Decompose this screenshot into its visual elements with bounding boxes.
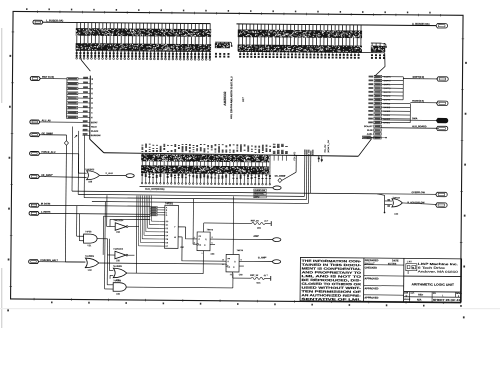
connector tag DMA xyxy=(436,118,448,123)
svg-text:ARITHMETIC LOGIC UNIT: ARITHMETIC LOGIC UNIT xyxy=(411,282,454,286)
wire FF1 Qbar stub xyxy=(210,243,215,245)
svg-text:74AS805: 74AS805 xyxy=(85,168,95,171)
svg-text:NO.: NO. xyxy=(433,293,437,295)
svg-text:ZERO: ZERO xyxy=(254,196,260,198)
wire riser V2 xyxy=(77,131,80,194)
wire CARRY long net xyxy=(92,202,308,204)
connector tag OE_AMNT' xyxy=(29,175,39,179)
svg-text:D5: D5 xyxy=(166,239,168,241)
wire OE dropper xyxy=(295,155,297,172)
connector tag ALU_A8 xyxy=(30,120,40,124)
or-gate U42 74AS32 xyxy=(392,199,403,207)
net label BL.M5 xyxy=(362,136,371,139)
connector tag J_INDEX xyxy=(29,211,39,215)
svg-text:RAND2: RAND2 xyxy=(383,110,391,113)
inverter C32 74AS1004 xyxy=(115,223,126,231)
resistor ESP pullup xyxy=(251,277,264,279)
wire feeder G2 xyxy=(108,239,110,271)
wire riser V3 xyxy=(83,135,86,197)
wire to gate U42 xyxy=(384,195,386,212)
svg-text:REF: REF xyxy=(418,294,423,297)
svg-text:74F08: 74F08 xyxy=(85,231,92,233)
svg-text:A_BUS(31:0A): A_BUS(31:0A) xyxy=(412,22,430,26)
wire FF2 clear to pullup xyxy=(232,272,234,278)
flip-flop C33 74F74 xyxy=(197,232,210,251)
connector tag OVERFLOW xyxy=(436,192,448,197)
wire NEGATIVE long net xyxy=(78,194,304,196)
svg-text:BORROW: BORROW xyxy=(91,135,101,137)
svg-text:D2: D2 xyxy=(166,228,168,230)
wire INV1 out xyxy=(128,226,139,228)
svg-text:ALU_OUT(31:0A): ALU_OUT(31:0A) xyxy=(145,188,165,191)
wire A_BUS horizontal bus xyxy=(236,24,435,26)
wire SHIFT(0:3) to tag xyxy=(403,78,438,80)
status net name boxes OVERFLOW NEGATIVE ZERO xyxy=(254,189,267,192)
wire FF2 Qbar stub xyxy=(239,265,244,267)
net oval AMP' xyxy=(273,238,281,242)
svg-text:AM29332: AM29332 xyxy=(223,91,227,105)
wires status droppers OVERFLOW NEGATIVE ZERO xyxy=(303,156,305,197)
wire FF2 Q to G_AMP' xyxy=(239,260,272,262)
wire J_INDEX net xyxy=(39,212,150,215)
svg-text:74AS805: 74AS805 xyxy=(85,255,95,258)
svg-text:RAND4: RAND4 xyxy=(383,102,391,105)
wire mux Y to FF1 D xyxy=(186,227,198,239)
wire INST vertical xyxy=(66,79,68,117)
wire FF2 preset riser xyxy=(232,196,235,254)
svg-text:RAND1: RAND1 xyxy=(383,121,391,124)
svg-text:G_AMP': G_AMP' xyxy=(258,256,267,259)
net oval G_AMP' xyxy=(272,260,280,264)
wires SHIFT bundle xyxy=(382,76,404,78)
or-gate U40 74AS805 xyxy=(85,258,99,268)
junction diamond OE_29998' right xyxy=(278,178,282,182)
junction BORROW arrow xyxy=(76,135,78,137)
pin stubs ALU_OUT bits F0-F31 xyxy=(141,154,143,183)
pin labels below Q group xyxy=(371,54,373,56)
svg-text:D7: D7 xyxy=(166,246,168,248)
svg-text:APPROVED: APPROVED xyxy=(365,277,379,280)
svg-text:N/A: N/A xyxy=(417,298,422,302)
pin number labels L_BUS bottom xyxy=(76,52,78,54)
svg-text:SCALE: SCALE xyxy=(404,298,411,301)
net oval F_ALU xyxy=(126,174,134,178)
ALU status/shift output pin column xyxy=(374,75,382,78)
flip-flop C60 74F74 xyxy=(226,254,239,272)
wire feeder to lower gates xyxy=(135,196,138,274)
wire to status/shift pin column xyxy=(375,53,385,76)
label band L_BUS upper xyxy=(76,28,211,37)
wire mux Y out xyxy=(178,226,185,228)
svg-text:8: 8 xyxy=(241,259,242,261)
svg-text:SCAAPT: SCAAPT xyxy=(364,125,373,128)
wire riser V1 xyxy=(71,127,74,192)
wire L_BUS horizontal bus xyxy=(43,22,210,23)
wire INV2 out xyxy=(128,254,135,256)
wire feeder G3 b xyxy=(104,202,107,289)
INST bit rows into ALU instruction pins xyxy=(67,77,78,80)
wire F_ALU xyxy=(100,174,126,176)
wire feeder INV1 xyxy=(106,195,108,226)
border zone ticks top xyxy=(37,10,39,12)
pin labels below A_BUS comb xyxy=(239,52,241,53)
wire B_HOVERFLOW xyxy=(403,203,437,204)
pin stubs L_BUS bits LB0-LB31 into ALU U27 xyxy=(76,22,78,57)
svg-text:D3: D3 xyxy=(166,232,168,234)
border zone ticks bottom xyxy=(33,298,35,300)
svg-text:FC4 (NC): FC4 (NC) xyxy=(294,151,296,160)
ALU control pins BSTAT HOLD CLOCK BORROW xyxy=(83,120,88,122)
svg-text:RAND1: RAND1 xyxy=(383,114,391,117)
svg-text:13: 13 xyxy=(230,274,232,276)
wire ZERO long net xyxy=(84,198,306,200)
title block approvals xyxy=(364,264,404,266)
svg-text:AMP': AMP' xyxy=(253,235,259,238)
pin labels ALU_OUT band3 xyxy=(141,165,269,174)
svg-text:11: 11 xyxy=(222,264,224,266)
wire L_BUS comb to spine xyxy=(80,57,90,71)
connector tag B_HOVERFLOW xyxy=(436,203,448,208)
connector tag ALU_BOARD xyxy=(436,126,448,131)
svg-text:SHIFT(0:3): SHIFT(0:3) xyxy=(412,77,424,79)
wire OE_29998' down xyxy=(65,145,66,262)
wire FORCE_ALU xyxy=(40,152,79,154)
wire G2 out xyxy=(127,272,203,275)
wire clock riser FF1 xyxy=(192,199,194,245)
svg-text:D0: D0 xyxy=(166,221,168,223)
svg-text:BL1B: BL1B xyxy=(367,130,373,132)
svg-text:5: 5 xyxy=(212,237,213,239)
label band A_BUS lower xyxy=(238,44,362,52)
connector tag L_BUS(31:0A) xyxy=(33,20,43,24)
svg-text:SHOULT: SHOULT xyxy=(365,262,375,265)
svg-text:D4: D4 xyxy=(166,235,168,237)
svg-text:M: M xyxy=(412,267,414,269)
wire OE_AMNT' xyxy=(39,176,86,179)
connector tag FORCEIN_ARLT xyxy=(29,260,39,264)
svg-text:6: 6 xyxy=(212,243,213,245)
svg-text:OVERFLOW: OVERFLOW xyxy=(254,190,265,192)
wire ALU_OUT rail to oval xyxy=(140,187,273,188)
wire diamond to dropper xyxy=(282,172,296,180)
pin labels ALU_OUT band2 xyxy=(141,154,269,162)
svg-text:CLOCK: CLOCK xyxy=(91,131,99,133)
wires RAND bundle xyxy=(381,102,410,104)
wires ALU_OUT staircase to mux D inputs xyxy=(138,196,140,246)
svg-text:2: 2 xyxy=(194,237,195,239)
svg-text:(NC)ALTL_OW: (NC)ALTL_OW xyxy=(327,140,330,153)
svg-text:ALU 128-P64 AND ARITH 32-BIT A: ALU 128-P64 AND ARITH 32-BIT ALU xyxy=(230,76,233,119)
connector tag OE_29998' xyxy=(30,133,40,137)
border zone ticks left/right xyxy=(12,31,14,33)
svg-text:AABL: AABL xyxy=(367,133,374,136)
wire FORCEIN_ARLT xyxy=(39,261,86,263)
svg-text:ALU_BOARD: ALU_BOARD xyxy=(412,125,427,128)
svg-text:RAND3: RAND3 xyxy=(383,106,391,109)
svg-text:REF_1K: REF_1K xyxy=(251,220,259,222)
wire sel net A riser xyxy=(102,216,104,255)
title block size/sheet rows xyxy=(404,296,462,299)
pin stubs A_BUS bits AB0-AB31 into ALU U27 xyxy=(238,24,240,52)
wire G3 out xyxy=(126,286,233,289)
resistor REF pullup xyxy=(252,222,265,224)
svg-text:ESP_1K: ESP_1K xyxy=(250,275,258,277)
svg-text:APPROVED: APPROVED xyxy=(364,297,378,300)
svg-text:DMA: DMA xyxy=(412,117,418,120)
junction diamond OE_29998' xyxy=(64,141,68,146)
wire gate input 2 xyxy=(385,204,392,206)
border frame xyxy=(11,11,463,302)
wire hook to pad xyxy=(230,42,233,45)
svg-text:OE_29998': OE_29998' xyxy=(275,176,286,178)
svg-text:D1: D1 xyxy=(166,225,168,227)
wire mux W to FF2 D xyxy=(182,237,226,261)
pin labels above ALU_OUT bus xyxy=(142,144,144,147)
wire G4 out to FF2 clock xyxy=(99,263,226,264)
wire comb bottom rail xyxy=(238,51,384,52)
power tee xyxy=(270,221,272,226)
wire DMA to tag xyxy=(381,119,438,121)
inverter C38 74AS1004 xyxy=(115,251,126,259)
wire ALU_BOARD to tag xyxy=(381,127,438,129)
svg-text:74AS1004: 74AS1004 xyxy=(114,219,125,222)
wire spine diagonal to ALU_OUT bus xyxy=(90,139,104,153)
title block xyxy=(300,257,462,302)
or-gate C39 74AS805 xyxy=(113,268,127,278)
wire IR net xyxy=(39,204,150,207)
wire J_INDEX to G1 xyxy=(78,214,80,241)
wire ALU_A8 xyxy=(40,121,83,123)
svg-text:74AS08: 74AS08 xyxy=(113,279,122,282)
svg-text:CHECKED: CHECKED xyxy=(365,267,378,270)
svg-text:OVL_OW: OVL_OW xyxy=(325,144,327,152)
svg-text:CUT.: CUT. xyxy=(410,293,415,295)
mux select input boxes xyxy=(150,206,157,208)
title block company box xyxy=(404,275,462,278)
svg-text:74AS1004: 74AS1004 xyxy=(113,248,124,251)
wire BL.M5 xyxy=(371,136,386,138)
wire OVERFLOW long net xyxy=(72,191,436,194)
or-gate U38 74AS805 xyxy=(87,171,100,180)
scan edge artifacts xyxy=(1,28,2,103)
pin group BM0-BM3 xyxy=(215,41,231,43)
svg-text:Andover, MA 01810: Andover, MA 01810 xyxy=(418,269,459,273)
svg-text:W: W xyxy=(174,237,176,239)
wire FF1 Q to AMP' xyxy=(210,238,273,241)
wire feeder G3 xyxy=(106,255,108,285)
wire FF1 preset to pullup xyxy=(203,223,205,232)
wire sel net B riser xyxy=(109,219,111,226)
connector tag SHIFT(0:3) xyxy=(437,77,449,82)
svg-text:NEGATIVE: NEGATIVE xyxy=(254,192,264,195)
svg-text:D6: D6 xyxy=(166,242,168,244)
connector tag IR(D4:B6) xyxy=(29,203,39,207)
svg-text:74AS805: 74AS805 xyxy=(113,265,123,268)
net oval ALU_OUT status xyxy=(273,186,281,190)
wire INST bus to pins xyxy=(40,78,67,80)
pin group right of ALU_OUT comb xyxy=(273,155,275,160)
wire bus diagonal to status column xyxy=(358,139,371,157)
power tee 2 xyxy=(270,276,272,281)
svg-text:74F74: 74F74 xyxy=(237,249,244,252)
svg-text:SENTATIVE OF LMI.: SENTATIVE OF LMI. xyxy=(301,297,361,302)
svg-text:74F251: 74F251 xyxy=(165,202,174,205)
wire sel net A xyxy=(103,215,150,217)
labels above droppers xyxy=(304,149,305,152)
label band L_BUS lower xyxy=(76,43,211,51)
wire sel net B xyxy=(110,218,150,220)
svg-text:SHEET 26 OF 41: SHEET 26 OF 41 xyxy=(433,298,461,302)
svg-text:12: 12 xyxy=(222,259,224,261)
wire OE_29998' xyxy=(40,134,67,136)
wire FF1 clear down xyxy=(202,251,204,274)
wire mux W out xyxy=(178,236,182,238)
and-gate C30 74AS08 xyxy=(113,283,126,292)
svg-text:74F74: 74F74 xyxy=(207,228,214,231)
mux data pins D0-D7 xyxy=(160,220,165,222)
wire ALU left pin spine xyxy=(89,76,92,140)
svg-text:1: 1 xyxy=(201,253,202,255)
svg-text:U27: U27 xyxy=(241,97,245,102)
svg-text:APPROVED: APPROVED xyxy=(364,287,378,290)
pin labels ALU_OUT band4 xyxy=(141,173,143,176)
connector tag INST(31:26) xyxy=(30,77,40,81)
wire RAND(0:4) to tag xyxy=(410,102,437,104)
wire ALU_OUT bus xyxy=(104,153,359,157)
svg-text:OVERFLOW: OVERFLOW xyxy=(411,192,425,194)
svg-text:B_HOVERFLOW: B_HOVERFLOW xyxy=(407,202,425,204)
pin labels below BM group xyxy=(215,53,217,55)
and-gate U31 74F08 xyxy=(84,234,98,243)
svg-text:BSTAT: BSTAT xyxy=(91,121,98,124)
title block drawing title xyxy=(404,291,462,294)
svg-text:74AS32: 74AS32 xyxy=(392,196,400,199)
wire L_BUS comb rail xyxy=(76,50,211,51)
short stubs right of droppers xyxy=(318,156,320,162)
label band A_BUS upper xyxy=(238,29,362,38)
svg-text:3: 3 xyxy=(194,242,195,244)
mux U30 74F251 xyxy=(165,205,179,248)
svg-text:L M I: L M I xyxy=(407,261,412,263)
svg-text:6/27/86: 6/27/86 xyxy=(388,263,397,266)
wire G1 out xyxy=(97,238,107,240)
connector tag FORCE_ALU xyxy=(30,151,40,155)
connector tag RAND(0:4) xyxy=(436,101,448,106)
svg-text:F_ALU: F_ALU xyxy=(106,172,113,175)
pin group Q0-Q3 xyxy=(371,42,384,44)
wire IR to G1 xyxy=(76,206,78,237)
connector tag A_BUS(31:0A) xyxy=(436,24,448,29)
wire gate input 1 xyxy=(385,200,392,202)
svg-text:HOLD: HOLD xyxy=(91,127,97,129)
svg-text:RAND(0:4): RAND(0:4) xyxy=(412,100,424,103)
